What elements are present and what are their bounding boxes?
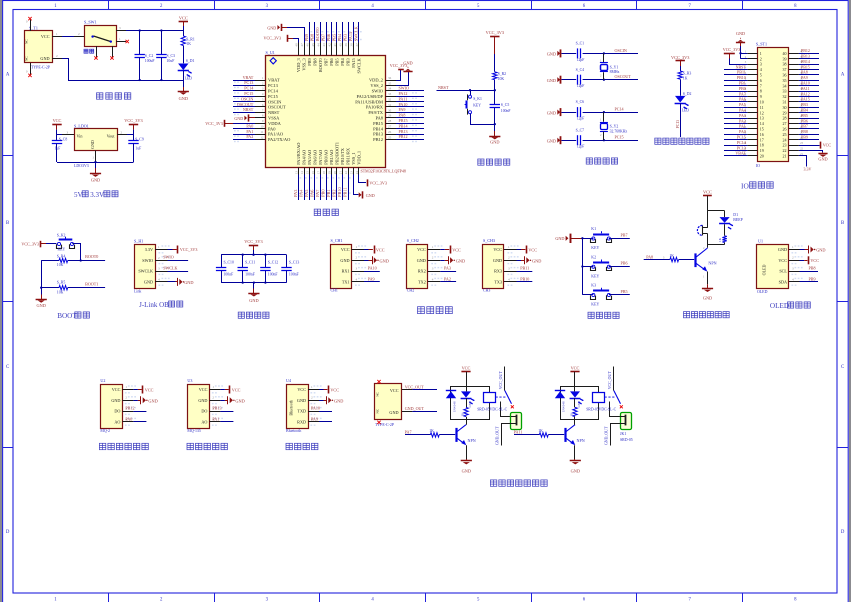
- svg-text:5V: 5V: [74, 191, 83, 199]
- svg-text:3.3V: 3.3V: [90, 191, 104, 199]
- svg-text:12pF: 12pF: [577, 117, 585, 121]
- svg-text:42: 42: [327, 43, 331, 47]
- U4 pin3 net PA10: [319, 411, 332, 413]
- caption smoke module: [99, 443, 105, 449]
- oled pin1 GND port: [800, 249, 805, 251]
- keys left bus: [582, 238, 584, 294]
- svg-text:PB6: PB6: [329, 57, 334, 65]
- U4 pin4 net PA9: [319, 421, 332, 423]
- svg-text:PA7: PA7: [405, 430, 412, 435]
- svg-text:PC13: PC13: [268, 83, 279, 88]
- svg-text:SRD-05VDC-SL-C: SRD-05VDC-SL-C: [586, 408, 616, 412]
- relay resistor 1K: [466, 386, 468, 391]
- svg-text:100nF: 100nF: [224, 273, 234, 277]
- svg-text:12pF: 12pF: [577, 145, 585, 149]
- svg-text:PB6: PB6: [801, 118, 808, 123]
- svg-text:100nF: 100nF: [501, 109, 511, 113]
- svg-text:JK1: JK1: [620, 432, 626, 436]
- svg-text:GND_OUT: GND_OUT: [496, 426, 500, 445]
- svg-text:PC13: PC13: [676, 120, 680, 129]
- svg-text:32.768KHz: 32.768KHz: [610, 129, 628, 133]
- svg-text:PA12: PA12: [399, 91, 408, 96]
- svg-text:PB9: PB9: [307, 58, 312, 66]
- svg-text:VCC_3V3: VCC_3V3: [205, 121, 223, 126]
- svg-text:S_K2: S_K2: [57, 234, 66, 238]
- svg-text:24: 24: [355, 171, 359, 175]
- svg-text:VCC: VCC: [112, 387, 121, 392]
- switch pin 1 right no-connect: [116, 41, 126, 43]
- T1 pin 1 VCC: [52, 36, 62, 38]
- svg-text:S_Y2: S_Y2: [610, 125, 619, 129]
- svg-text:37: 37: [783, 67, 787, 72]
- relay resistor 1K: [574, 386, 576, 391]
- svg-text:12pF: 12pF: [577, 58, 585, 62]
- svg-text:PB14: PB14: [801, 59, 810, 64]
- svg-text:GND: GND: [40, 56, 49, 61]
- svg-text:29: 29: [783, 110, 787, 115]
- svg-text:PA9: PA9: [368, 277, 375, 282]
- header pin 22 to GND: [799, 151, 823, 153]
- svg-text:VCC: VCC: [778, 258, 787, 263]
- resistor 1K alarm led: [724, 224, 726, 236]
- svg-text:1uF: 1uF: [135, 147, 141, 151]
- capacitor S_C13 100nF: [286, 255, 288, 267]
- svg-text:16: 16: [760, 132, 764, 137]
- filter top bus: [221, 254, 286, 256]
- svg-text:1K: 1K: [669, 254, 674, 258]
- mcu VDD_1 to VCC_3V3 port: [359, 175, 367, 183]
- svg-text:PB5: PB5: [332, 34, 337, 41]
- header pin stubs: [747, 53, 757, 55]
- svg-text:PC15: PC15: [737, 135, 746, 140]
- oled pin3 net PB8: [800, 271, 819, 273]
- svg-text:S_R3: S_R3: [683, 72, 692, 76]
- svg-text:PB4: PB4: [801, 108, 808, 113]
- svg-text:VCC: VCC: [145, 387, 154, 392]
- svg-text:GND: GND: [547, 110, 556, 115]
- svg-text:PB9: PB9: [801, 135, 808, 140]
- svg-text:PC14: PC14: [244, 86, 253, 91]
- svg-text:PC14: PC14: [737, 140, 746, 145]
- svg-text:13: 13: [760, 116, 764, 121]
- svg-text:VCC_3V3: VCC_3V3: [263, 36, 281, 41]
- svg-text:VBAT: VBAT: [243, 75, 254, 80]
- U3 pin stubs: [209, 389, 220, 391]
- svg-text:GND: GND: [703, 296, 712, 301]
- base resistor 1K PA11: [514, 434, 539, 436]
- svg-text:GND: GND: [493, 258, 502, 263]
- svg-text:PA7/AO: PA7/AO: [318, 150, 323, 165]
- switch pin 3 right: [116, 30, 126, 32]
- svg-text:LED: LED: [682, 109, 690, 113]
- svg-text:PC14: PC14: [615, 107, 624, 112]
- boot left bus: [41, 261, 43, 288]
- svg-text:VCC: VCC: [341, 247, 350, 252]
- svg-text:PA7: PA7: [315, 190, 320, 197]
- svg-text:PC15: PC15: [268, 94, 279, 99]
- svg-text:S_C6: S_C6: [576, 100, 585, 104]
- svg-text:NRST: NRST: [268, 110, 280, 115]
- svg-text:AO: AO: [201, 420, 207, 425]
- svg-text:36: 36: [388, 76, 392, 80]
- svg-text:OLED: OLED: [761, 264, 766, 275]
- svg-text:B: B: [6, 221, 9, 226]
- svg-text:NPN: NPN: [577, 438, 585, 443]
- svg-text:NC: NC: [25, 39, 29, 44]
- T1 pin 2 GND: [52, 58, 62, 60]
- svg-text:PA1: PA1: [739, 124, 746, 129]
- svg-text:TXD: TXD: [297, 409, 306, 414]
- svg-text:PA3: PA3: [293, 190, 298, 197]
- svg-text:GND: GND: [249, 298, 258, 303]
- U3 pin4 net PA1: [220, 421, 233, 423]
- svg-text:38: 38: [349, 43, 353, 47]
- svg-text:1K: 1K: [570, 412, 574, 417]
- svg-text:22: 22: [344, 171, 348, 175]
- relay GND_OUT wire: [611, 424, 621, 446]
- svg-text:GND: GND: [90, 140, 95, 149]
- ground GND reset: [494, 124, 496, 131]
- svg-text:21: 21: [783, 154, 787, 159]
- svg-text:GND: GND: [91, 177, 100, 182]
- svg-text:PB12: PB12: [801, 48, 810, 53]
- svg-text:VCC: VCC: [528, 247, 537, 252]
- svg-text:PA12: PA12: [801, 91, 810, 96]
- header left net wires: [724, 69, 747, 71]
- relay contact common VCC_OUT: [504, 367, 506, 391]
- svg-text:1K: 1K: [186, 42, 191, 46]
- svg-text:1N4148: 1N4148: [561, 401, 565, 412]
- svg-text:SWIO: SWIO: [163, 255, 174, 260]
- svg-text:33: 33: [388, 92, 392, 96]
- svg-text:Vin: Vin: [77, 133, 84, 138]
- svg-text:SWIO: SWIO: [372, 89, 384, 94]
- svg-text:PB12: PB12: [399, 134, 408, 139]
- flyback diode 1N4148: [555, 390, 565, 392]
- LED D1: [178, 64, 188, 71]
- ldo bottom rail: [57, 162, 134, 164]
- svg-text:28: 28: [388, 119, 392, 123]
- svg-text:TX2: TX2: [418, 280, 426, 285]
- svg-text:1K: 1K: [461, 412, 465, 417]
- relay GND_OUT wire: [502, 424, 512, 446]
- svg-text:PB0/AO: PB0/AO: [324, 150, 329, 165]
- capacitor S_C11 100nF: [242, 255, 244, 267]
- svg-text:VBAT: VBAT: [268, 78, 280, 83]
- svg-text:VCC: VCC: [232, 387, 241, 392]
- svg-text:PA11: PA11: [801, 86, 810, 91]
- T1 bottom NC pin: [30, 63, 32, 75]
- svg-text:23: 23: [783, 143, 787, 148]
- caption relay control circuit: [490, 480, 496, 486]
- svg-text:40: 40: [338, 43, 342, 47]
- S_CH3 pin3 net PB11: [517, 271, 533, 273]
- svg-text:SRD-05VDC-SL-C: SRD-05VDC-SL-C: [477, 408, 507, 412]
- svg-text:13: 13: [294, 171, 298, 175]
- svg-text:GND: GND: [144, 280, 153, 285]
- svg-text:S_C1: S_C1: [576, 42, 585, 46]
- svg-text:PB12: PB12: [373, 137, 383, 142]
- mcu top pin stubs: [298, 43, 300, 56]
- ground GND power circuit: [183, 80, 185, 87]
- svg-text:VCC: VCC: [703, 190, 712, 195]
- svg-text:18: 18: [322, 171, 326, 175]
- svg-text:KEY: KEY: [58, 247, 66, 251]
- svg-text:1K: 1K: [429, 429, 434, 433]
- ldo pin 3: [62, 134, 74, 136]
- svg-text:DO: DO: [114, 409, 120, 414]
- relay coil: [593, 393, 605, 403]
- svg-text:PA6/AO: PA6/AO: [313, 150, 318, 165]
- svg-text:43: 43: [322, 43, 326, 47]
- svg-text:SWCLK: SWCLK: [138, 269, 153, 274]
- svg-text:20: 20: [760, 154, 764, 159]
- relay contact NO wire: [610, 402, 621, 417]
- svg-text:PC15: PC15: [615, 135, 624, 140]
- U3 pin2 GND port: [220, 400, 225, 402]
- svg-text:44: 44: [316, 43, 320, 47]
- base resistor 1K PA7: [405, 434, 430, 436]
- svg-text:SWCLK: SWCLK: [357, 57, 362, 73]
- svg-text:PB13: PB13: [399, 129, 408, 134]
- S_CH2 pin3 net PA3: [440, 271, 456, 273]
- svg-text:VCC_3V3: VCC_3V3: [369, 181, 387, 186]
- svg-text:LED: LED: [577, 400, 581, 407]
- reset bottom wire: [470, 124, 495, 126]
- svg-text:C: C: [6, 365, 9, 370]
- svg-text:PA2: PA2: [444, 277, 451, 282]
- mcu U1 STM32F103C8T6 body: [266, 56, 386, 168]
- svg-text:RX3: RX3: [494, 269, 502, 274]
- svg-text:STM32F103C8T6_LQFP48: STM32F103C8T6_LQFP48: [361, 168, 406, 173]
- svg-text:3.3V: 3.3V: [145, 247, 153, 252]
- svg-text:PA1/AO: PA1/AO: [268, 132, 284, 137]
- svg-text:VCC: VCC: [823, 143, 832, 148]
- svg-text:VCC_OUT: VCC_OUT: [405, 384, 424, 389]
- net PB7 wire: [609, 238, 630, 240]
- svg-text:OLED: OLED: [770, 302, 789, 310]
- svg-text:OLED: OLED: [757, 290, 768, 294]
- svg-text:VCC_3V3: VCC_3V3: [723, 47, 741, 52]
- svg-text:7: 7: [760, 83, 762, 88]
- svg-text:PA8: PA8: [399, 113, 406, 118]
- svg-text:PB4: PB4: [340, 57, 345, 65]
- svg-text:PA3/RX/AO: PA3/RX/AO: [296, 143, 301, 165]
- svg-text:SWIO: SWIO: [142, 258, 153, 263]
- U2 pin1 VCC port: [133, 389, 138, 391]
- mcu top net wires: [309, 22, 311, 43]
- svg-text:GND: GND: [462, 468, 471, 473]
- svg-text:KEY: KEY: [591, 303, 599, 307]
- svg-text:S_C8: S_C8: [59, 138, 68, 142]
- svg-text:32: 32: [388, 98, 392, 102]
- U4 pin2 GND port: [319, 400, 324, 402]
- svg-text:PA10: PA10: [368, 266, 377, 271]
- svg-text:1uF: 1uF: [55, 147, 61, 151]
- crystal S_Y1 8MHz: [603, 52, 605, 54]
- svg-text:VSS_1: VSS_1: [351, 152, 356, 164]
- svg-text:GND: GND: [111, 398, 120, 403]
- mcu left pin stubs: [255, 80, 266, 82]
- ground GND relay: [466, 459, 468, 461]
- svg-text:PA1: PA1: [212, 416, 219, 421]
- svg-text:30: 30: [388, 108, 392, 112]
- svg-text:PB8: PB8: [801, 129, 808, 134]
- svg-text:27: 27: [783, 121, 787, 126]
- svg-text:IO: IO: [756, 164, 760, 168]
- svg-text:100uF: 100uF: [145, 59, 155, 63]
- oled pin stubs: [789, 249, 800, 251]
- capacitor S_C9 1uF: [133, 135, 135, 140]
- svg-text:PA5: PA5: [304, 190, 309, 197]
- svg-text:PB3: PB3: [346, 58, 351, 66]
- capacitor S_C8 1uF: [56, 135, 58, 140]
- svg-text:S_CH1: S_CH1: [331, 238, 343, 243]
- relay LED: [461, 391, 471, 397]
- svg-text:GND: GND: [179, 96, 188, 101]
- connector T1 (TYPE-C-2P): [25, 31, 53, 63]
- svg-text:VDD_3: VDD_3: [296, 58, 301, 72]
- svg-text:3: 3: [760, 62, 762, 67]
- svg-text:GND: GND: [417, 258, 426, 263]
- svg-text:MQ-135: MQ-135: [187, 429, 200, 433]
- header pin 23 to VCC: [799, 145, 820, 147]
- transistor NPN relay PA11: [564, 428, 566, 442]
- svg-text:CH1: CH1: [331, 289, 338, 293]
- svg-text:21: 21: [338, 171, 342, 175]
- jlink pin1 to VCC_3V3: [168, 249, 173, 251]
- zone column ticks and labels: [108, 1, 110, 10]
- relay outline: [451, 387, 490, 400]
- svg-text:PA0: PA0: [268, 126, 276, 131]
- svg-text:GND_OUT: GND_OUT: [605, 426, 609, 445]
- svg-text:11: 11: [760, 105, 764, 110]
- svg-text:PB1/AO: PB1/AO: [329, 150, 334, 165]
- relay contact arm: [496, 396, 506, 398]
- svg-text:PC14: PC14: [268, 89, 279, 94]
- svg-text:GND: GND: [818, 157, 827, 162]
- wire K2 to BOOT0: [72, 244, 80, 261]
- svg-text:K1: K1: [591, 227, 596, 231]
- relay output connector SRD: [511, 413, 522, 430]
- caption keys circuit: [588, 312, 594, 318]
- ldo pin 1 gnd: [95, 151, 97, 163]
- S_CH2 pin2 GND port: [440, 260, 445, 262]
- svg-text:23: 23: [349, 171, 353, 175]
- svg-text:D: D: [841, 530, 845, 535]
- svg-text:VCC: VCC: [179, 15, 188, 20]
- button S_K2 KEY: [59, 239, 73, 241]
- U2 pin2 GND port: [133, 400, 138, 402]
- svg-text:VSSA: VSSA: [268, 116, 280, 121]
- mcu right VSS_2 to GND: [396, 72, 409, 86]
- svg-text:14: 14: [300, 171, 304, 175]
- svg-text:36: 36: [783, 73, 787, 78]
- svg-text:PB10: PB10: [337, 187, 342, 196]
- top rail wire switch to VCC: [126, 30, 183, 32]
- svg-text:PA15: PA15: [351, 58, 356, 68]
- svg-text:NRST: NRST: [243, 107, 254, 112]
- ground GND relay: [574, 459, 576, 461]
- svg-text:SDA: SDA: [779, 280, 787, 285]
- svg-text:U1: U1: [758, 239, 763, 244]
- svg-text:VDDA: VDDA: [268, 121, 282, 126]
- svg-text:S_SW1: S_SW1: [84, 20, 97, 25]
- svg-text:48: 48: [294, 43, 298, 47]
- svg-text:PB6: PB6: [621, 261, 628, 266]
- svg-text:GND: GND: [736, 31, 745, 36]
- wire T1 VCC to switch: [62, 36, 74, 38]
- svg-text:PA10/RX: PA10/RX: [366, 105, 384, 110]
- svg-text:PB11: PB11: [520, 266, 529, 271]
- svg-text:Vout: Vout: [107, 133, 116, 138]
- svg-text:Bluetooth: Bluetooth: [286, 429, 301, 433]
- alarm top branch wire: [707, 210, 724, 212]
- svg-text:2: 2: [760, 56, 762, 61]
- svg-text:PB0: PB0: [321, 189, 326, 196]
- svg-text:39: 39: [783, 56, 787, 61]
- svg-text:CH3: CH3: [483, 289, 490, 293]
- button S_K1 KEY: [470, 90, 472, 95]
- svg-text:VSS_2: VSS_2: [370, 83, 383, 88]
- svg-text:PC13: PC13: [737, 145, 746, 150]
- caption crystal circuit: [586, 158, 592, 164]
- switch S_SW1: [85, 26, 117, 47]
- LED S_D2: [675, 96, 685, 103]
- svg-text:VCC_OUT: VCC_OUT: [499, 371, 503, 390]
- header pin 21 net 3.3V: [799, 156, 807, 167]
- svg-text:37: 37: [355, 43, 359, 47]
- svg-text:1N4148: 1N4148: [452, 401, 456, 412]
- svg-text:11: 11: [260, 130, 263, 134]
- svg-text:26: 26: [388, 130, 392, 134]
- svg-text:PA5: PA5: [739, 102, 746, 107]
- svg-text:10: 10: [260, 125, 264, 129]
- svg-text:S_C13: S_C13: [289, 261, 299, 265]
- resistor S_R2 10K: [493, 72, 497, 80]
- svg-text:VCC: VCC: [452, 247, 461, 252]
- relay coil: [484, 393, 496, 403]
- typec out pin VCC_OUT: [402, 389, 412, 391]
- svg-text:OSCIN: OSCIN: [615, 48, 627, 53]
- svg-text:PA7: PA7: [739, 91, 746, 96]
- svg-text:PA9: PA9: [311, 416, 318, 421]
- svg-text:GND: GND: [547, 138, 556, 143]
- svg-text:PB5: PB5: [335, 58, 340, 66]
- svg-text:PB8: PB8: [310, 34, 315, 41]
- svg-text:PB15: PB15: [399, 118, 408, 123]
- capacitor S_C5 100nF: [494, 90, 496, 104]
- svg-text:31: 31: [388, 103, 392, 107]
- svg-text:TX3: TX3: [494, 280, 502, 285]
- svg-text:VSS_3: VSS_3: [302, 58, 307, 70]
- svg-text:PB4: PB4: [337, 33, 342, 41]
- svg-text:S_CH2: S_CH2: [407, 238, 419, 243]
- svg-text:PB7: PB7: [801, 124, 808, 129]
- svg-text:VDD_2: VDD_2: [369, 78, 383, 83]
- svg-text:PB15: PB15: [801, 64, 810, 69]
- svg-text:6: 6: [760, 78, 762, 83]
- svg-text:PB13: PB13: [373, 132, 384, 137]
- svg-text:PB5: PB5: [801, 113, 808, 118]
- ground GND boot: [41, 288, 43, 295]
- connector TYPE-C-2P output: [375, 384, 402, 420]
- U2 pin stubs: [122, 389, 133, 391]
- svg-text:PB14: PB14: [399, 123, 408, 128]
- svg-text:24: 24: [783, 137, 787, 142]
- svg-text:PB10: PB10: [520, 277, 529, 282]
- svg-text:BOOT0: BOOT0: [318, 58, 323, 72]
